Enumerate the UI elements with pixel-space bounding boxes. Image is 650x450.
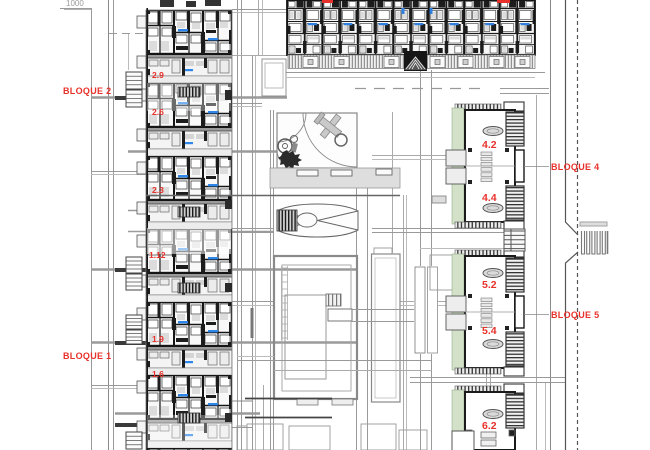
block body bbox=[465, 110, 515, 222]
BLOQUE labels bbox=[63, 86, 599, 361]
comb strip top bbox=[455, 104, 501, 110]
svg-text:BLOQUE 4: BLOQUE 4 bbox=[551, 162, 599, 172]
svg-text:2.3: 2.3 bbox=[152, 185, 164, 195]
table ovals bbox=[483, 410, 503, 419]
table ovals bbox=[483, 269, 503, 278]
stair cores bbox=[126, 72, 142, 449]
lens pool bbox=[277, 204, 358, 237]
court west ladder bbox=[282, 266, 288, 340]
left building band BLOQUE 1/2 bbox=[146, 10, 232, 450]
central court bbox=[274, 254, 400, 402]
lighter zones overlays bbox=[147, 228, 231, 254]
court cross walkway bbox=[326, 294, 341, 306]
amenity square bbox=[277, 113, 357, 168]
court bottom caps bbox=[297, 399, 318, 405]
balcony bottom bbox=[506, 332, 524, 366]
central stair top band bbox=[404, 51, 427, 71]
unit labels bbox=[149, 70, 166, 379]
svg-text:2.9: 2.9 bbox=[152, 70, 164, 80]
furniture bbox=[481, 298, 492, 328]
west annex rects of top band bbox=[262, 59, 286, 96]
comb strip bottom bbox=[455, 368, 501, 374]
pergola rects west of block5 bbox=[414, 266, 438, 354]
furniture bbox=[481, 152, 492, 182]
top edge label bits bbox=[322, 0, 333, 3]
lap pool east bbox=[372, 254, 401, 402]
svg-text:BLOQUE 2: BLOQUE 2 bbox=[63, 86, 111, 96]
section bars bbox=[91, 98, 356, 414]
balcony bottom bbox=[506, 186, 524, 220]
svg-text:5.4: 5.4 bbox=[482, 325, 497, 337]
east edge stair blobs bbox=[225, 90, 232, 422]
road network bbox=[60, 0, 565, 450]
west porches bbox=[446, 150, 466, 166]
svg-text:4.2: 4.2 bbox=[482, 139, 497, 151]
svg-text:1.12: 1.12 bbox=[149, 250, 166, 260]
balcony top bbox=[506, 258, 524, 292]
block body bbox=[465, 392, 515, 450]
rim strip bbox=[288, 55, 535, 69]
green strip bbox=[452, 390, 464, 450]
comb strip bottom bbox=[455, 222, 501, 228]
comb strip top bbox=[455, 386, 501, 392]
leader lines bbox=[524, 166, 549, 168]
svg-text:1.9: 1.9 bbox=[152, 334, 164, 344]
mid bump bbox=[515, 296, 524, 328]
mid bump bbox=[515, 150, 524, 182]
parking hatch bbox=[580, 222, 608, 254]
access bridges dark bbox=[115, 96, 148, 427]
svg-text:6.2: 6.2 bbox=[482, 420, 497, 432]
band stairs bbox=[178, 87, 200, 97]
mid walkway across court bbox=[374, 248, 392, 256]
svg-text:BLOQUE 1: BLOQUE 1 bbox=[63, 351, 111, 361]
table ovals bbox=[483, 127, 503, 136]
svg-text:BLOQUE 5: BLOQUE 5 bbox=[551, 310, 599, 320]
svg-text:2.6: 2.6 bbox=[152, 107, 164, 117]
play icon bbox=[278, 139, 292, 153]
svg-text:4.4: 4.4 bbox=[482, 192, 497, 204]
balcony top bbox=[506, 394, 524, 428]
balcony top bbox=[506, 112, 524, 146]
top building band bbox=[287, 0, 535, 55]
bottom rects bbox=[237, 196, 456, 450]
svg-text:1000: 1000 bbox=[66, 0, 84, 8]
gray terrace band bbox=[270, 168, 400, 188]
comb strip top bbox=[455, 250, 501, 256]
block body bbox=[465, 256, 515, 368]
band top vents bbox=[160, 0, 221, 7]
west porches bbox=[446, 296, 466, 312]
inter-block ladder bbox=[504, 229, 525, 251]
svg-text:5.2: 5.2 bbox=[482, 279, 497, 291]
gym icon bbox=[310, 106, 348, 144]
boundary dashed line bbox=[566, 0, 579, 450]
green strip bbox=[452, 254, 464, 370]
svg-text:1.6: 1.6 bbox=[152, 369, 164, 379]
green strip bbox=[452, 108, 464, 224]
west porches bbox=[137, 16, 146, 433]
